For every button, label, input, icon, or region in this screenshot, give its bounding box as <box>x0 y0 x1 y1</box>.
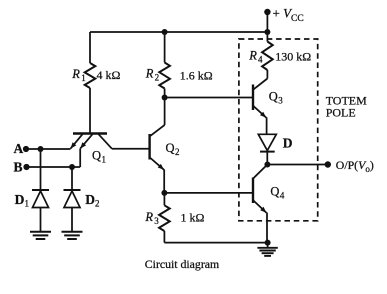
svg-text:A: A <box>14 141 24 156</box>
svg-text:4 kΩ: 4 kΩ <box>97 68 121 82</box>
wire R1 top <box>89 32 91 63</box>
wire Q1 collector to Q2 base <box>112 148 150 150</box>
wire R2 top <box>164 32 166 63</box>
svg-text:POLE: POLE <box>326 105 356 119</box>
terminal input B <box>23 164 29 170</box>
diode D2 cathode bar <box>64 189 81 191</box>
svg-text:130 kΩ: 130 kΩ <box>275 50 311 64</box>
diode D cathode bar <box>260 151 275 153</box>
wire Q4 emitter to ground <box>266 213 268 243</box>
svg-text:R: R <box>144 210 153 224</box>
wire input A <box>26 148 71 150</box>
terminal input A <box>23 146 29 152</box>
svg-text:3: 3 <box>278 96 283 106</box>
wire D2 anode lead <box>71 167 73 190</box>
wire D1 to ground <box>40 208 42 232</box>
wire Q3 emitter to diode D <box>266 117 268 134</box>
svg-text:4: 4 <box>258 55 263 65</box>
node R2 / Q2 collector / Q3 base junction <box>162 95 168 101</box>
svg-text:R: R <box>71 67 80 81</box>
wire VCC stub <box>266 12 268 42</box>
diode D1 triangle <box>33 191 49 208</box>
ground under D1 <box>30 231 51 233</box>
wire top VCC rail <box>90 31 267 33</box>
svg-text:1: 1 <box>25 199 30 209</box>
resistor R2 <box>159 63 170 89</box>
svg-text:Q: Q <box>270 185 279 199</box>
totem pole dashed box <box>239 39 318 221</box>
transistor Q1 base bar <box>73 132 107 134</box>
transistor Q1 collector <box>99 134 113 149</box>
svg-text:R: R <box>145 67 154 81</box>
transistor Q3 base bar <box>252 85 254 111</box>
wire input B riser to Q1 emitter 2 <box>79 149 81 167</box>
svg-text:2: 2 <box>175 147 180 157</box>
wire D1 anode lead <box>40 149 42 190</box>
wire Q2 collector vertical <box>164 98 166 126</box>
diode D triangle <box>258 134 276 150</box>
wire R3 to ground node <box>164 242 267 244</box>
wire junction to Q3 base <box>165 97 253 99</box>
svg-text:Q: Q <box>92 149 101 163</box>
svg-text:1.6 kΩ: 1.6 kΩ <box>180 69 213 83</box>
svg-text:D: D <box>85 192 95 207</box>
svg-text:B: B <box>14 159 23 174</box>
diode D1 cathode bar <box>32 189 49 191</box>
ground under D2 <box>62 231 83 233</box>
svg-text:O/P(Vo): O/P(Vo) <box>336 158 374 174</box>
svg-text:R: R <box>248 49 257 63</box>
node VCC rail / VCC branch junction <box>264 29 270 35</box>
ground under Q4 <box>257 247 277 249</box>
transistor Q3 emitter (arrow) <box>253 106 266 118</box>
transistor Q4 base bar <box>252 178 254 204</box>
svg-text:1: 1 <box>81 73 86 83</box>
wire input B <box>27 166 81 168</box>
svg-text:D: D <box>283 136 293 151</box>
transistor Q1 emitter 1 (arrow to input A) <box>71 134 83 148</box>
svg-text:4: 4 <box>280 191 285 201</box>
wire R4 bottom to Q3 collector <box>266 70 268 79</box>
transistor Q2 collector diagonal <box>150 125 164 136</box>
diode D2 triangle <box>64 191 80 208</box>
power terminal +VCC <box>264 9 270 15</box>
svg-text:2: 2 <box>95 199 100 209</box>
wire R1 bottom to Q1 base <box>89 88 91 134</box>
node B / D2 junction <box>69 164 75 170</box>
resistor R1 <box>85 63 96 88</box>
svg-text:1: 1 <box>102 155 107 165</box>
transistor Q4 emitter (arrow) <box>253 201 266 213</box>
svg-text:1 kΩ: 1 kΩ <box>181 211 205 225</box>
resistor R3 <box>159 205 170 231</box>
wire R3 bottom <box>163 231 165 243</box>
transistor Q2 base bar <box>148 134 150 160</box>
transistor Q4 collector diagonal <box>253 165 267 179</box>
wire junction to Q4 base <box>164 192 253 194</box>
wire D2 to ground <box>71 208 73 232</box>
svg-text:+ VCC: + VCC <box>273 6 304 25</box>
wire output <box>267 164 327 166</box>
node Q2 emitter / R3 / Q4 base junction <box>161 190 167 196</box>
node A / D1 junction <box>38 146 44 152</box>
wire Q2 emitter vertical <box>163 170 165 193</box>
node ground junction <box>265 240 271 246</box>
wire R3 top <box>163 193 165 205</box>
transistor Q3 collector diagonal <box>253 79 267 90</box>
resistor R4 <box>262 42 273 71</box>
svg-text:2: 2 <box>155 73 160 83</box>
wire R2 bottom <box>164 89 166 98</box>
node output junction <box>264 162 270 168</box>
svg-text:D: D <box>15 192 25 207</box>
terminal output <box>325 161 331 167</box>
svg-text:Q: Q <box>166 141 175 155</box>
svg-text:Circuit diagram: Circuit diagram <box>145 257 219 271</box>
node VCC rail / R2 junction <box>162 29 168 35</box>
wire diode D to output node <box>266 152 268 165</box>
transistor Q1 emitter 2 (arrow to input B) <box>80 134 92 148</box>
svg-text:3: 3 <box>154 216 159 226</box>
transistor Q2 emitter (arrow) <box>150 158 164 170</box>
wire ground stub <box>267 243 269 248</box>
svg-text:Q: Q <box>269 90 278 104</box>
